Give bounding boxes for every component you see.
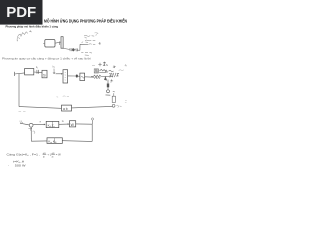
svg-text:Càng G(s)=Kₚ , F=1 ,: Càng G(s)=Kₚ , F=1 , [7,153,41,157]
sine glyph in box3 [81,76,85,78]
arrowhead into boxB [68,123,70,125]
small hatched rect [94,69,98,73]
arrowhead into tall box [61,73,63,75]
vertical branch with blob and circle [106,80,111,96]
top ticks and hats [103,62,106,66]
motor body [45,40,55,48]
arrowhead into sum [30,127,32,129]
minus + theta marks below sum [28,128,35,134]
sum junction [29,123,33,127]
resistor bumpy line [91,75,113,77]
faint squiggle right [95,33,99,36]
wire motor to lever [55,42,61,43]
output drop wire [91,124,93,141]
svg-text:k₁: k₁ [36,66,38,69]
ab box [62,105,72,111]
input tick [13,72,15,76]
PDF badge [0,0,43,25]
tall box inner marks [65,73,66,81]
svg-text:PDF: PDF [6,4,36,21]
svg-text:a b: a b [63,107,68,111]
arrow boxA to boxB [59,123,69,125]
svg-text:k₂: k₂ [53,65,55,68]
S box [42,70,47,78]
page background [0,0,149,198]
wire box3 to cluster [85,76,94,78]
tick on wire [58,41,60,45]
arrowhead down [104,77,106,80]
svg-text:t=Kₚ.θ: t=Kₚ.θ [13,159,25,163]
output wire [76,123,93,125]
circuit cluster [91,62,119,83]
feedback bottom wire to ab box [19,107,61,109]
fb box [47,138,62,144]
handwritten annotations around chain [81,35,101,55]
svg-text:S: S [43,73,46,78]
svg-text:-: - [8,164,9,167]
lever bar [61,37,63,49]
boxA [46,121,59,127]
node circle at wire end [112,104,115,107]
svg-text:Phương án quay cơ cấu càng + đ: Phương án quay cơ cấu càng + đóng cơ 1 c… [2,58,91,61]
fb box divider [54,138,56,144]
faint pencil above [19,110,26,112]
dense blob above arrowhead [105,70,108,73]
faint mark right margin [125,100,127,102]
wire tall box to dot [68,75,76,77]
wire fb box to riser [31,140,47,142]
wire input to box1 [15,73,25,74]
tall box [63,70,68,83]
output node: stem + circle [91,120,93,124]
motor left stub [43,42,45,44]
box1 [25,69,34,75]
plus mark [98,63,101,66]
wire Ua to sum [20,123,29,125]
fraction 2 [51,153,55,159]
below-line marks right [111,79,114,82]
riser up [79,44,81,50]
svg-text:Phương pháp mô hình điều khiển: Phương pháp mô hình điều khiển 1 càng [6,25,59,29]
series chain right of lever [63,44,88,51]
arrow to box3 [78,75,80,77]
handwritten marks right of node [116,105,121,107]
arrowhead into boxA [44,124,46,126]
scribbles above resistor [100,69,106,71]
faint far-right marks [92,64,127,71]
right scribbles [109,71,114,77]
boxA divider [52,121,54,127]
arrow sum to boxA [33,123,45,125]
svg-text:= W: = W [56,153,61,157]
fraction 1 [43,153,47,159]
bottom wire to fb box [62,140,92,143]
box3 [80,73,85,80]
riser to sum [30,127,32,141]
slanted strokes right block [110,73,118,78]
pencil scribble top-left [17,30,32,41]
arrow wire to tall box [56,73,63,75]
ticks k1 [37,70,38,74]
wire box1 to S box [34,71,42,74]
faint pencil above ab box [57,96,69,97]
boxB [70,121,76,127]
feedback wire right of ab box [72,106,113,108]
hatch ticks [95,77,101,79]
svg-text:500 W: 500 W [15,163,26,167]
pot element above [112,96,115,102]
dark dot component [76,74,78,77]
feedback drop wire [18,74,20,107]
